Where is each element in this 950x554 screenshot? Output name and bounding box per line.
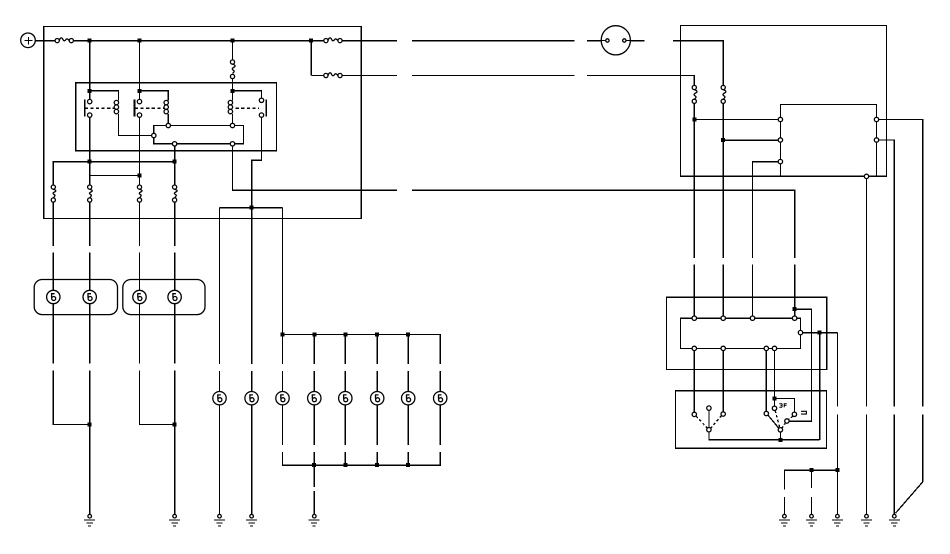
wire column 866 lower [866,415,868,515]
wire column 10 to lamp [376,371,378,392]
wire L10 down [376,405,378,445]
pin U2 pin2 [721,316,725,320]
switch S2 throw dashed c [789,416,793,419]
pin U2 pin7 bottom [721,346,725,350]
wire column 9 upper [344,335,346,365]
node L1-L2 join [88,422,92,426]
wire L6 to ground [251,405,253,515]
wire column3 to lamp L3 [139,253,141,291]
switch S1 terminal left [692,412,696,416]
node column795 branch [793,307,797,311]
wire bus470 middle ground lower [811,497,813,515]
wire column 8 upper [313,335,315,365]
pin U2 pin1 [692,316,696,320]
wire column 837 to bus470 [836,415,838,470]
relay K3 contact [233,91,267,118]
lamp L6 [245,392,258,405]
node F5 column / U1 pin2 [721,138,725,142]
node main bus / relay K3 feed [231,39,235,43]
circuit breaker CB5 on relay K3 feed [230,41,235,89]
switch S2 common [778,428,782,432]
wire y41 to lamp connector [587,40,601,42]
node bus470 right [835,468,839,472]
wire node to U1 pin1 [694,119,778,121]
pin interlock bottom right [230,142,234,146]
pin interlock top left [166,123,170,127]
node y175 / K2 contact column [138,173,142,177]
wire U1 pin4 right drop [879,120,923,407]
node bus334 column7 [281,333,285,337]
relay K1 coil [90,91,152,136]
switch S2 lower right contact [785,419,789,423]
wire U1 pin3 drop [753,162,779,258]
wire L12 down [439,405,441,445]
switch S2 blade solid [768,415,779,428]
wire y41 mid segment [412,40,575,42]
enclosure box left (dash panel) [44,26,362,218]
switch S2 right contact [792,412,796,416]
fuse F4 [692,85,697,103]
wire branch to fuse F3 [311,75,324,77]
node y162 / K1 contact column [88,160,92,164]
switch S1 throw right dashed [711,416,722,428]
wire L4 down [174,304,176,364]
wire column 723 lower [722,265,724,316]
enclosure box right top [681,25,887,176]
fuse F2 [324,38,342,43]
wire column 923 lower with diagonal [896,415,923,514]
lamp L9 [339,392,352,405]
wire F5 to node [722,103,724,258]
wire F4 to node [693,103,695,258]
pin interlock left [152,133,156,137]
pin U2 pin9 bottom [772,346,776,350]
lamp L8 [308,392,321,405]
wire L9 down [344,405,346,445]
fuse F1 [55,38,73,43]
relay K3 coil [228,91,232,124]
node relay K2 top [138,89,142,93]
wire column 8 to lamp [313,371,315,392]
connector plug view C1 [601,26,630,55]
wire L8 down [313,405,315,445]
node bus334 column9 [343,333,347,337]
wire L1 to join [53,371,87,425]
wire column 11 upper [407,335,409,365]
wire pin6 to switch S1 [693,351,695,413]
wire column11 stub [407,452,409,465]
fuse F3 [324,73,342,78]
wire column 694 lower [693,265,695,316]
wire L11 down [407,405,409,445]
wire U1 pin6 drop [866,179,868,407]
switch S1 terminal right [721,412,725,416]
wire lamp to gap [630,40,644,42]
wire main feed bus y41 [73,40,323,42]
wire column4 to lamp L4 [174,253,176,291]
node bus465 column8 [312,463,316,467]
pin U1 pin5 [874,138,878,142]
headlamp housing box left A [34,280,117,315]
lamp L1 [47,290,60,303]
control unit box right top [780,105,876,177]
branch down to fuse F3 [310,41,312,76]
pin U1 pin3 [778,159,782,163]
wire relay K2 feed drop [139,41,141,91]
wire L4 to ground [174,371,176,515]
connector unit box right middle [681,318,801,348]
lamp L10 [371,392,384,405]
switch S1 throw left dashed [696,416,707,428]
wire L1 down [52,304,54,364]
node bus465 column11 [406,463,410,467]
wire S2 common stub [779,432,781,438]
switch S2 terminal left [764,411,768,415]
node relay K3 top [231,89,235,93]
wire node to U1 pin2 [723,139,778,141]
wire column 11 to lamp [407,371,409,392]
ground G7 [806,514,817,526]
node F4 column / U1 pin1 [692,118,696,122]
wire bus465 ground drop upper [313,465,315,487]
wire column 752 lower [752,265,754,316]
lamp L5 [213,392,226,405]
pin U2 pin5 right edge [798,330,802,334]
wire K1 contact column down [89,117,91,185]
wire bus465 ground drop lower [313,491,315,514]
wire U1 pin5 right drop [879,140,895,407]
wire column 9 to lamp [344,371,346,392]
lamp L2 [83,290,96,303]
wire column 5 upper [219,208,221,364]
wire L3 down [139,304,141,364]
node y162 / interlock column [173,160,177,164]
switch S1 common [707,428,711,432]
wire L2 down [89,304,91,364]
circuit breaker CB1 [51,185,56,202]
wire y76 segment 1 [342,75,397,77]
switch S2 middle contact [772,406,776,410]
wire column 795 lower [794,265,796,316]
node switch S2 branch [773,397,777,401]
wire column3 below CB3 [139,202,141,246]
wire pin8 to switch S2 [765,351,767,412]
wire bus470 left ground lower [783,497,785,515]
wire bus y208 lamp feed [220,207,283,209]
switch S2 throw dashed b [782,423,786,429]
wire bus y465 [283,452,441,465]
wire bus y162 [53,162,174,185]
switch S2 throw dashed a [775,411,780,428]
node bus334 column8 [312,333,316,337]
wire L5 to ground [219,405,221,515]
ground G8 [832,514,843,526]
wire column 837 upper [836,333,838,407]
wire bus y334 [283,335,441,365]
wire battery to fuse F1 [35,40,55,42]
ground G1 [84,514,95,526]
fuse F5 [721,85,726,103]
wire fuse F2 to connector gap [342,40,397,42]
wire column8 stub [313,452,315,465]
ground G4 [246,514,257,526]
wire L3 to join [140,371,173,425]
wire K2 contact column down [139,117,141,185]
headlamp housing box left B [123,280,205,315]
battery B+ [21,33,36,48]
node main bus / fuse F2-F3 branch [309,39,313,43]
wire interlock bottom-left column down [174,146,176,185]
lamp L11 [402,392,415,405]
relay K1 contact [85,91,115,118]
node bus334 column10 [375,333,379,337]
wire column 6 to lamp [251,371,253,392]
switch S1 pole link [708,410,710,427]
node main bus / relay K2 feed [138,39,142,43]
node bus334 column11 [406,333,410,337]
pin U1 pin4 [874,117,878,121]
label 3F [779,404,787,408]
ground G9 [861,514,872,526]
wire column 7 upper [282,208,284,364]
switch unit box right bottom [676,391,827,449]
node bus440 / S2 common [778,438,782,442]
wire branch to column 812 [789,309,811,421]
wire y41 into right box [673,41,723,86]
wire relay K1 feed drop [89,41,91,91]
pin U2 pin6 bottom [692,346,696,350]
relay box [76,83,277,151]
lamp L3 [133,290,146,303]
wire L2 to ground [89,371,91,515]
ground G6 [779,514,790,526]
node bus465 column10 [375,463,379,467]
wire column1 to lamp L1 [52,253,54,291]
relay K2 contact [135,91,165,118]
wire column2 below CB2 [89,202,91,246]
circuit breaker CB3 [137,185,142,202]
ground G5 [309,514,320,526]
circuit breaker CB2 [88,185,93,202]
wire y190 right segment [412,190,795,258]
wire column9 stub [344,452,346,465]
wire branch to S2 right contact [775,399,795,413]
pin U2 pin8 bottom [764,346,768,350]
wire y76 into right box [587,76,694,86]
node bus470 middle [810,468,814,472]
pin U2 pin3 [750,316,754,320]
wire S1 common to bus [709,432,820,440]
ground G2 [169,514,180,526]
wire column 837 ground [836,470,838,514]
wire bus470 [784,470,837,490]
enclosure box right middle [666,297,826,369]
wire column 12 to lamp [439,371,441,392]
node pin5 wire / switch bus riser [818,331,822,335]
wire relay K3 contact to lamp feed jog [252,117,262,205]
wire column2 to lamp L2 [89,253,91,291]
node bus y208 / K3 contact column [250,206,254,210]
pin U1 pin2 [778,138,782,142]
pin U2 pin4 [792,316,796,320]
wire y76 segment 2 [412,75,575,77]
wire riser to switch bus [819,333,821,440]
lamp L7 [276,392,289,405]
pin interlock bottom left [172,142,176,146]
wire pin9 to switch S2 [774,351,776,407]
wire column4 below CB4 [174,202,176,246]
wire bus y175 [90,174,140,176]
wire column 6 upper [251,208,253,364]
wire interlock to rear harness y190 [233,146,397,190]
pin U1 pin1 [778,117,782,121]
label port mark [801,411,806,414]
relay K2 coil [140,91,169,124]
node bus465 column9 [343,463,347,467]
interlock unit box [154,126,244,144]
wire L7 down [282,405,284,445]
pin interlock top right [230,123,234,127]
wire bus470 middle ground upper [811,470,813,488]
wire column10 stub [376,452,378,465]
node main bus / relay K1 feed [88,39,92,43]
ground G3 [214,514,225,526]
wire U2 pin5 right [803,332,838,334]
pin U1 pin6 [864,174,868,178]
wire column 894 lower [893,415,895,515]
wire pin7 to switch S1 [722,351,724,412]
wire column1 below CB1 [52,202,54,246]
ground G10 [889,514,900,526]
node relay K1 top [88,89,92,93]
wire column 10 upper [376,335,378,365]
circuit breaker CB4 [173,185,178,202]
lamp L12 [434,392,447,405]
switch S1 pole top [707,406,711,410]
wire column 5 to lamp [219,371,221,392]
lamp L4 [168,290,181,303]
wire column 7 to lamp [282,371,284,392]
node L3-L4 join [173,422,177,426]
